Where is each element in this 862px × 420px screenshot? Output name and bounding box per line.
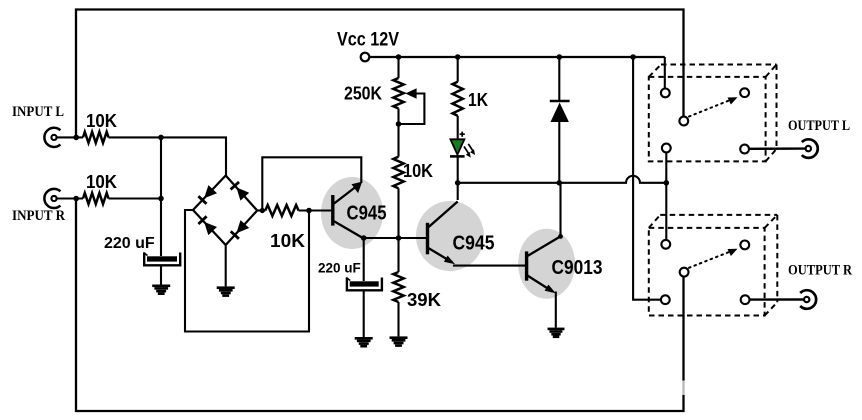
wire capacitor to ground xyxy=(160,265,162,284)
diode bridge bottom-right (anode right vertex) xyxy=(231,220,250,239)
relay RL1 actuation dotted arrow xyxy=(689,97,738,116)
wire bridge frame xyxy=(193,176,257,246)
relay RL1 common arm contact xyxy=(679,117,688,126)
svg-text:INPUT R: INPUT R xyxy=(12,208,65,224)
wire flyback diode to drive line xyxy=(558,122,560,183)
resistor 10K (input L) xyxy=(83,132,109,143)
watermark smudge on right border xyxy=(680,381,687,396)
junction input L / left border xyxy=(73,135,79,141)
potentiometer 250K xyxy=(393,78,424,124)
relay RL1 contact upper-left xyxy=(661,89,670,98)
diode bridge top-right (anode right vertex) xyxy=(231,182,250,201)
wire 39K to ground xyxy=(397,302,399,336)
wire rail to 250K xyxy=(397,57,399,78)
wire Vcc rail xyxy=(369,56,665,58)
wire timing cap to ground xyxy=(363,290,365,337)
wire input L jack to resistor xyxy=(57,136,83,138)
junction rail / 1K xyxy=(455,54,461,60)
junction input R / left border xyxy=(73,196,79,202)
svg-text:220 uF: 220 uF xyxy=(104,235,155,252)
junction input L / summing line xyxy=(158,135,164,141)
wire rail to 1K xyxy=(457,57,459,82)
resistor 1K xyxy=(453,82,463,116)
transistor Q1 C945 highlight xyxy=(321,177,383,249)
junction Q3 collector elbow xyxy=(558,234,563,239)
relay RL2 contact upper-right (NO) xyxy=(740,241,749,250)
capacitor 220uF (input) xyxy=(144,253,181,266)
wire 10K to Q1 base xyxy=(299,209,333,211)
output jack L xyxy=(802,139,818,158)
svg-text:C9013: C9013 xyxy=(552,256,603,279)
junction input R / summing line xyxy=(158,196,164,202)
svg-text:220 uF: 220 uF xyxy=(318,261,361,276)
svg-text:39K: 39K xyxy=(407,289,442,310)
relay RL1 contact upper-right (NO) xyxy=(740,88,749,97)
LED indicator (green) xyxy=(450,132,475,158)
wire Q1 emitter node to Q2 base xyxy=(364,237,428,239)
wire relay drive line with hoop over R line xyxy=(458,176,667,183)
wire LED to Q2 collector node xyxy=(457,156,459,200)
svg-text:10K: 10K xyxy=(270,230,306,251)
diode bridge bottom-left (anode bottom vertex) xyxy=(198,216,217,235)
wire bridge left vertex loop (to Q1 base) xyxy=(185,210,309,332)
wire RL2 lower-right contact to output R jack xyxy=(750,298,805,301)
wire Q3 emitter to ground xyxy=(555,292,557,328)
resistor 10K (bias) xyxy=(393,157,403,189)
svg-text:1K: 1K xyxy=(468,89,489,110)
junction divider node xyxy=(396,235,402,241)
relay RL1 3D dashed box xyxy=(649,65,777,162)
relay RL1 contact lower-left xyxy=(662,144,671,153)
junction drive line / diode+Q3 xyxy=(557,180,563,186)
junction rail / relay R coil line xyxy=(630,54,636,60)
relay RL2 contact lower-right xyxy=(741,295,750,304)
svg-text:250K: 250K xyxy=(344,83,383,104)
wire summing line down to capacitor xyxy=(160,137,162,256)
wire node down to timing cap xyxy=(363,238,365,281)
relay RL2 contact upper-left xyxy=(661,240,670,249)
wire rail down to relay 2 lower contact xyxy=(633,57,660,300)
wire Q3 collector up to drive line xyxy=(559,183,561,237)
junction LED / relay drive line xyxy=(455,180,461,186)
junction feedback / bridge right vertex xyxy=(260,208,265,213)
ground (timing cap) xyxy=(355,337,373,340)
wire input R resistor to summing junction xyxy=(109,197,162,199)
svg-text:10K: 10K xyxy=(86,171,118,192)
junction Q1 base / loop xyxy=(306,208,312,214)
diode flyback (cathode up) xyxy=(550,101,570,122)
resistor 10K (input R) xyxy=(83,193,109,204)
resistor 10K (bridge to Q1 base) xyxy=(265,205,298,216)
junction drive line / relay contacts line xyxy=(664,180,670,186)
wire bridge bottom vertex to ground xyxy=(225,245,227,286)
terminal Vcc xyxy=(361,53,370,62)
relay RL1 contact lower-right xyxy=(740,145,749,154)
transistor Q2 C945 highlight xyxy=(416,201,484,271)
transistor Q3 C9013 highlight xyxy=(518,229,575,299)
transistor Q2 C945 xyxy=(428,202,458,265)
svg-text:C945: C945 xyxy=(453,232,495,255)
svg-text:OUTPUT R: OUTPUT R xyxy=(788,263,852,279)
wire bottom border (R signal path) xyxy=(76,199,684,412)
output jack R xyxy=(800,290,816,309)
svg-text:INPUT L: INPUT L xyxy=(12,104,64,120)
svg-text:Vcc 12V: Vcc 12V xyxy=(337,30,399,51)
wire 250K to 10K xyxy=(397,109,399,157)
junction Q1 emitter / cap xyxy=(361,235,367,241)
wire bridge right vertex to 10K xyxy=(257,209,265,211)
relay RL2 actuation dotted arrow xyxy=(689,249,738,268)
junction 250K wiper xyxy=(396,121,402,127)
relay RL2 3D dashed box xyxy=(649,215,778,316)
wire RL1 lower-left contact down to relay 2 xyxy=(665,152,667,240)
input jack L xyxy=(44,128,60,147)
wire input R jack to resistor xyxy=(57,197,83,199)
svg-text:10K: 10K xyxy=(403,160,434,181)
wire Q1 collector feedback loop to bridge right xyxy=(262,157,361,210)
resistor 39K xyxy=(393,272,403,302)
svg-text:C945: C945 xyxy=(347,202,387,225)
relay RL2 contact lower-left xyxy=(661,295,670,304)
wire input L resistor to bridge top xyxy=(109,137,227,175)
diode bridge top-left (anode top vertex) xyxy=(198,185,217,204)
wire top border (Vcc-L signal path) xyxy=(76,10,684,137)
relay RL2 common arm contact xyxy=(680,268,689,277)
ground (39K) xyxy=(390,336,408,339)
wire RL1 lower-right contact to output L jack xyxy=(749,147,806,150)
input jack R xyxy=(44,189,60,208)
svg-text:10K: 10K xyxy=(86,110,118,131)
wire rail to flyback diode xyxy=(558,57,560,101)
wire Q2 emitter to Q3 base xyxy=(454,265,527,266)
wire rail to RL1 upper-left contact xyxy=(664,57,666,88)
ground (Q3 emitter) xyxy=(548,328,565,331)
ground (bridge) xyxy=(217,286,235,289)
wire 1K to LED xyxy=(457,116,459,140)
transistor Q1 C945 xyxy=(333,182,364,239)
junction rail / diode xyxy=(557,54,563,60)
junction rail / 250K xyxy=(396,54,402,60)
wire divider node to 39K xyxy=(397,238,399,272)
capacitor 220uF (timing) xyxy=(346,278,382,291)
wire 10K to divider node xyxy=(397,188,399,238)
ground (input cap) xyxy=(152,285,170,288)
svg-text:OUTPUT L: OUTPUT L xyxy=(788,118,850,134)
transistor Q3 C9013 xyxy=(527,236,561,293)
